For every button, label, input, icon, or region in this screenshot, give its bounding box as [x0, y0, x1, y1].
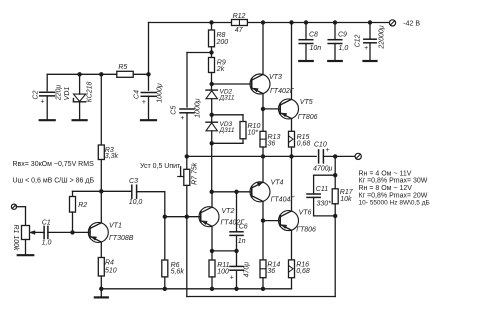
svg-text:10,0: 10,0: [129, 199, 143, 206]
svg-text:Кг =0,8% Pmax= 30W: Кг =0,8% Pmax= 30W: [359, 178, 428, 185]
svg-text:C3: C3: [129, 178, 138, 185]
svg-text:ГТ806: ГТ806: [298, 114, 318, 121]
svg-text:47: 47: [235, 27, 244, 34]
svg-text:C5: C5: [171, 106, 178, 115]
svg-text:Кг =0,8% Pmax= 20W: Кг =0,8% Pmax= 20W: [359, 192, 428, 199]
svg-text:330*: 330*: [317, 201, 332, 208]
svg-text:VT3: VT3: [269, 74, 282, 81]
svg-text:R2: R2: [78, 202, 87, 209]
svg-text:C1: C1: [42, 219, 51, 226]
svg-text:R5: R5: [118, 64, 127, 71]
svg-text:0,68: 0,68: [296, 268, 310, 275]
svg-text:C11: C11: [316, 186, 328, 193]
svg-text:5,6k: 5,6k: [171, 269, 185, 276]
svg-text:C6: C6: [239, 223, 248, 230]
svg-text:1n: 1n: [238, 238, 246, 245]
svg-text:Д311: Д311: [219, 94, 235, 101]
svg-text:-42 В: -42 В: [403, 20, 420, 27]
svg-text:КС218: КС218: [87, 82, 94, 103]
svg-text:36: 36: [268, 141, 276, 148]
svg-text:22000μ: 22000μ: [378, 25, 385, 49]
svg-text:10n: 10n: [310, 45, 322, 52]
svg-text:ГТ806: ГТ806: [296, 227, 316, 234]
svg-text:3,3k: 3,3k: [105, 153, 119, 160]
svg-text:Uш < 0,6 мВ С/Ш > 86 дБ: Uш < 0,6 мВ С/Ш > 86 дБ: [13, 178, 95, 185]
svg-text:+: +: [180, 115, 184, 122]
svg-text:VT5: VT5: [300, 99, 313, 106]
svg-text:200: 200: [216, 39, 229, 46]
svg-text:100: 100: [217, 269, 229, 276]
svg-text:R4: R4: [105, 260, 114, 267]
svg-text:1000μ: 1000μ: [195, 98, 202, 118]
svg-text:+: +: [41, 99, 45, 106]
svg-text:Д311: Д311: [219, 127, 235, 134]
svg-text:VT1: VT1: [109, 223, 122, 230]
svg-text:510: 510: [105, 267, 117, 274]
svg-text:+: +: [230, 274, 234, 281]
svg-text:0,68: 0,68: [297, 141, 311, 148]
svg-text:Rн = 8 Ом ~ 12V: Rн = 8 Ом ~ 12V: [359, 185, 413, 192]
svg-text:220μ: 220μ: [55, 85, 62, 102]
svg-text:10*: 10*: [248, 130, 259, 137]
svg-text:R12: R12: [233, 13, 246, 20]
svg-text:C9: C9: [338, 31, 347, 38]
svg-text:VD1: VD1: [64, 87, 71, 101]
svg-text:VT4: VT4: [271, 179, 284, 186]
svg-text:+: +: [142, 99, 146, 106]
svg-text:R7 75k: R7 75k: [192, 162, 199, 185]
svg-text:Уст 0,5 Uпит: Уст 0,5 Uпит: [140, 163, 181, 170]
svg-text:C2: C2: [33, 90, 40, 99]
svg-text:10k: 10k: [340, 196, 352, 203]
svg-text:470μ: 470μ: [244, 262, 251, 278]
svg-text:1,0: 1,0: [42, 239, 52, 246]
svg-text:C4: C4: [133, 90, 140, 99]
svg-text:ГТ308В: ГТ308В: [109, 235, 134, 242]
svg-text:10- 55000 Hz 8W\0,5 дБ: 10- 55000 Hz 8W\0,5 дБ: [359, 200, 430, 207]
svg-text:1000μ: 1000μ: [156, 83, 163, 103]
svg-text:2k: 2k: [216, 66, 225, 73]
svg-text:R8: R8: [217, 32, 226, 39]
svg-text:VT6: VT6: [299, 209, 312, 216]
svg-text:1,0: 1,0: [339, 45, 349, 52]
svg-text:R1 100k: R1 100k: [12, 224, 19, 251]
svg-text:C8: C8: [309, 31, 318, 38]
svg-text:36: 36: [267, 268, 275, 275]
svg-text:+: +: [326, 147, 330, 154]
svg-text:4700μ: 4700μ: [313, 166, 333, 173]
svg-text:VT2: VT2: [222, 208, 235, 215]
svg-text:+: +: [364, 45, 368, 52]
svg-text:Rн = 4 Ом ~ 11V: Rн = 4 Ом ~ 11V: [359, 170, 412, 177]
svg-text:C12: C12: [355, 34, 362, 47]
svg-text:Rвх= 30кОм ~0,75V RMS: Rвх= 30кОм ~0,75V RMS: [13, 161, 95, 168]
